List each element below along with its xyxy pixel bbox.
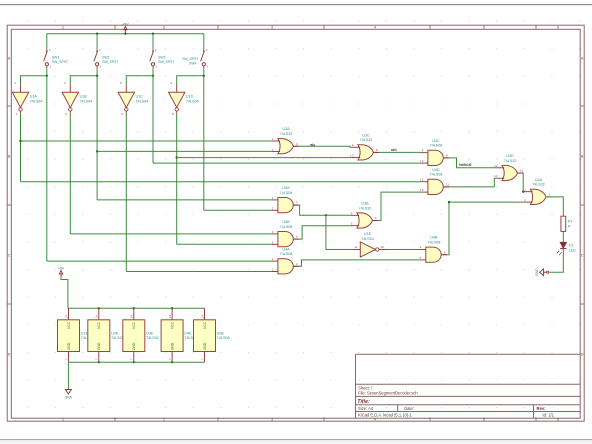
svg-text:74LS08: 74LS08 [430, 173, 443, 177]
svg-text:14: 14 [64, 315, 68, 319]
bottom window divider line [0, 439, 592, 440]
svg-text:SW_SPST: SW_SPST [102, 60, 118, 64]
svg-text:14: 14 [168, 315, 172, 319]
wire R1 to LED D1 [562, 231, 564, 242]
svg-text:3: 3 [271, 26, 273, 30]
wire SW4 down to bracket junction [203, 68, 205, 76]
ground symbol (right) [547, 271, 549, 273]
svg-text:U1B: U1B [80, 94, 88, 98]
AND gate U4A 74LS08 [278, 259, 293, 274]
svg-text:74LS08: 74LS08 [280, 191, 293, 195]
svg-text:SW3: SW3 [158, 55, 165, 59]
wire SW1(A) vertical [46, 76, 48, 261]
svg-text:D: D [8, 352, 11, 356]
wire GND rail to ground [67, 362, 69, 389]
wire nD to U5B pin5 [177, 243, 272, 245]
junction GND rail U3E [133, 361, 135, 363]
svg-text:Size: A4: Size: A4 [358, 406, 374, 411]
AND gate U5A 74LS08 [278, 198, 293, 213]
svg-text:U2E: U2E [111, 331, 119, 335]
wire nB to U5B pin4 [70, 233, 271, 235]
power unit U1E 74LS04 [68, 308, 70, 320]
svg-text:Date:: Date: [404, 406, 414, 411]
svg-text:U3C: U3C [362, 133, 370, 137]
wire U3D out to U2A pin1 [518, 173, 524, 192]
svg-text:VCC: VCC [203, 321, 207, 329]
svg-text:SW_SPST: SW_SPST [158, 60, 174, 64]
wire rail to SW4 [203, 34, 205, 49]
svg-text:74LS32: 74LS32 [146, 336, 159, 340]
wire U1A output vertical [20, 114, 22, 182]
svg-text:File: SevenSegmentDecoder.sch: File: SevenSegmentDecoder.sch [358, 391, 418, 396]
svg-text:13: 13 [494, 174, 498, 178]
svg-text:Rev:: Rev: [537, 406, 546, 411]
wire U4A out to U4B pin5 [293, 260, 419, 266]
wire bracket SW1 to U1A input [21, 76, 47, 85]
svg-text:74LS32: 74LS32 [111, 336, 124, 340]
svg-text:D1: D1 [569, 243, 574, 247]
wire SW1 down to bracket junction [46, 68, 48, 76]
wire nA to U4D pin12 [21, 181, 422, 183]
svg-text:10: 10 [350, 154, 354, 158]
wire U1E out to U4B pin4 [386, 249, 419, 251]
switch SW2 (SW_SPST) [94, 49, 99, 68]
AND gate U4B 74LS08 [426, 247, 441, 262]
svg-text:C: C [581, 253, 584, 257]
wire U4C out to U3D pin12 [443, 158, 495, 168]
svg-text:U1C: U1C [136, 94, 144, 98]
AND gate U4D 74LS08 [428, 179, 443, 194]
svg-text:1: 1 [62, 26, 64, 30]
svg-text:GND: GND [65, 396, 73, 400]
svg-text:74LS08: 74LS08 [280, 225, 293, 229]
junction U2A.2 [448, 201, 450, 203]
svg-text:ab: ab [310, 142, 315, 147]
svg-text:U4C: U4C [432, 139, 440, 143]
svg-text:VCC: VCC [97, 321, 101, 329]
svg-text:10: 10 [381, 245, 385, 249]
svg-text:12: 12 [494, 164, 498, 168]
svg-text:GND: GND [203, 342, 207, 350]
svg-text:14: 14 [130, 315, 134, 319]
svg-text:U2A: U2A [535, 178, 543, 182]
inverter U1C 74LS04 [118, 92, 134, 107]
wire VCC rail [68, 307, 205, 309]
wire bracket SW4 to U1D input [177, 76, 204, 85]
svg-text:SW_SPST: SW_SPST [182, 57, 198, 61]
junction +5V stem [124, 33, 126, 35]
junction SW1/bracket [46, 75, 48, 77]
LED D1 [560, 242, 566, 248]
svg-text:SW2: SW2 [102, 55, 109, 59]
+5V power symbol PWR01 [124, 26, 127, 33]
svg-text:2: 2 [163, 418, 165, 422]
wire U4D out to U3D pin13 [443, 178, 495, 187]
inverter U1D 74LS04 [169, 92, 185, 107]
svg-text:U4B: U4B [430, 236, 438, 240]
OR gate U3D 74LS32 [502, 165, 518, 180]
wire LED to GND [549, 249, 564, 272]
ground symbol (bottom left) [65, 390, 71, 394]
wire +5V to VCC rail [61, 277, 68, 308]
svg-text:U3A: U3A [282, 127, 290, 131]
wire A to U4A pin1 [47, 260, 272, 262]
svg-text:5: 5 [483, 418, 485, 422]
svg-text:74LS04: 74LS04 [80, 99, 93, 103]
svg-text:10: 10 [420, 159, 424, 163]
junction VCC rail U4E [171, 307, 173, 309]
wire C to U4C pin10 [153, 162, 421, 164]
svg-text:74LS08: 74LS08 [428, 241, 441, 245]
svg-text:74LS04: 74LS04 [30, 99, 43, 103]
svg-text:74LS04: 74LS04 [186, 99, 199, 103]
wire bracket SW3 to U1C input [126, 76, 153, 85]
svg-text:U4E: U4E [184, 331, 192, 335]
wire U3A out to U3C pin9 [294, 146, 352, 147]
inverter U1B 74LS04 [62, 92, 78, 107]
svg-text:11: 11 [446, 183, 449, 187]
svg-text:U4D: U4D [432, 168, 440, 172]
switch SW1 (SW_SPST) [44, 49, 49, 68]
wire rail to SW3 [152, 34, 154, 49]
svg-text:KiCad E.D.A. kicad (5.1.10)-1: KiCad E.D.A. kicad (5.1.10)-1 [358, 413, 412, 418]
wire U5B out to U3B pin5 [293, 226, 350, 239]
junction SW4/bracket [203, 75, 205, 77]
svg-text:5: 5 [483, 26, 485, 30]
wire bracket SW2 to U1B input [70, 76, 97, 85]
svg-text:U5B: U5B [282, 220, 290, 224]
wire GND rail [68, 361, 204, 363]
svg-text:ab1: ab1 [391, 148, 397, 152]
svg-text:6: 6 [557, 418, 559, 422]
AND gate U4C 74LS08 [428, 150, 443, 165]
title block [356, 354, 581, 418]
wire U4B out up to U2A pin2 [441, 202, 524, 255]
svg-text:11: 11 [354, 245, 357, 249]
svg-text:U3E: U3E [146, 331, 154, 335]
inverter U1A 74LS04 [12, 92, 28, 107]
svg-text:74LS04: 74LS04 [361, 237, 374, 241]
svg-text:VCC: VCC [67, 321, 71, 329]
frame column dividers and zone numbers [62, 25, 559, 421]
svg-text:GND: GND [535, 268, 539, 276]
svg-text:U5E: U5E [217, 331, 225, 335]
wire U1B output vertical [69, 114, 71, 234]
wire rail to SW1 [46, 34, 48, 49]
junction B [96, 150, 98, 152]
switch SW4 (SW_SPST) [201, 49, 206, 68]
svg-text:74LS32: 74LS32 [280, 132, 293, 136]
svg-text:R1: R1 [568, 220, 573, 224]
svg-text:SW4: SW4 [189, 62, 196, 66]
svg-text:14: 14 [95, 315, 99, 319]
resistor R1 [561, 216, 566, 231]
junction SW3/bracket [152, 75, 154, 77]
junction GND rail U2E [98, 361, 100, 363]
inverter U1E 74LS04 [360, 242, 375, 257]
junction U5A out [325, 214, 327, 216]
svg-text:Sheet: /: Sheet: / [358, 385, 373, 390]
svg-text:VCC: VCC [132, 321, 136, 329]
wire D to U5A pin2 [204, 209, 272, 211]
wire SW4(D) vertical [203, 76, 205, 211]
junction U2A.1 [522, 191, 524, 193]
wire nA to U3A pin1 [21, 140, 272, 142]
svg-text:GND: GND [132, 342, 136, 350]
junction SW2/bracket [96, 75, 98, 77]
svg-text:6: 6 [557, 26, 559, 30]
wire nD to U3C pin10 [177, 157, 352, 159]
wire B to U5A pin1 [97, 199, 271, 201]
power unit U3E 74LS32 [133, 308, 135, 320]
junction VCC rail U2E [98, 307, 100, 309]
svg-text:U3B: U3B [361, 202, 369, 206]
svg-text:R: R [568, 225, 571, 229]
svg-text:74LS08: 74LS08 [280, 252, 293, 256]
power unit U4E 74LS08 [171, 308, 173, 320]
wire U2A out to R1 [546, 197, 563, 216]
OR gate U3B 74LS32 [357, 213, 373, 228]
svg-text:VCC: VCC [170, 321, 174, 329]
top window divider line [0, 4, 592, 5]
svg-text:4: 4 [374, 418, 376, 422]
svg-text:GND: GND [67, 342, 71, 350]
+5V power symbol (power units) [59, 271, 62, 278]
svg-text:74LS32: 74LS32 [532, 183, 545, 187]
svg-text:U3D: U3D [506, 154, 514, 158]
junction nD [176, 156, 178, 158]
wire U3C out to U4C pin9 [374, 151, 422, 153]
svg-text:GND: GND [170, 342, 174, 350]
svg-text:3: 3 [271, 418, 273, 422]
wire SW3(C) vertical [152, 76, 154, 163]
wire SW3 down to bracket junction [152, 68, 154, 76]
svg-text:D: D [581, 352, 584, 356]
svg-text:Id: 1/1: Id: 1/1 [543, 413, 555, 418]
wire rail to SW2 [96, 34, 98, 49]
svg-text:74LS08: 74LS08 [430, 144, 443, 148]
svg-text:U1A: U1A [30, 94, 38, 98]
OR gate U2A 74LS32 [530, 189, 546, 204]
OR gate U3C 74LS32 [358, 145, 374, 160]
svg-text:74LS32: 74LS32 [359, 206, 372, 210]
svg-text:U4A: U4A [282, 247, 290, 251]
junction rail/SW3 [152, 33, 154, 35]
svg-text:13: 13 [420, 188, 424, 192]
wire SW2 down to bracket junction [96, 68, 98, 76]
wire +5V rail [47, 33, 204, 35]
svg-text:74LS32: 74LS32 [504, 159, 517, 163]
OR gate U3A 74LS32 [278, 139, 294, 154]
svg-text:U1E: U1E [364, 232, 372, 236]
svg-text:4: 4 [374, 26, 376, 30]
svg-text:12: 12 [420, 178, 424, 182]
power unit U5E 74LS08 [204, 308, 206, 320]
wire B to U3A pin2 [97, 150, 271, 152]
svg-text:SW1: SW1 [52, 55, 59, 59]
svg-text:+5V: +5V [122, 22, 129, 26]
svg-text:U1D: U1D [186, 94, 194, 98]
svg-text:+5V: +5V [58, 266, 65, 270]
frame row dividers and zone letters [7, 56, 584, 356]
switch SW3 (SW_SPST) [150, 49, 155, 68]
svg-text:LED: LED [569, 248, 576, 252]
svg-text:U5A: U5A [282, 186, 290, 190]
svg-text:0w9b1I0: 0w9b1I0 [459, 163, 472, 167]
svg-text:SW_SPST: SW_SPST [52, 60, 68, 64]
junction GND rail U4E [171, 361, 173, 363]
wire SW2(B) vertical [96, 76, 98, 200]
svg-text:74LS32: 74LS32 [360, 138, 373, 142]
svg-text:74LS04: 74LS04 [136, 99, 149, 103]
svg-text:11: 11 [520, 169, 523, 173]
AND gate U5B 74LS08 [278, 232, 293, 247]
svg-text:GND: GND [97, 342, 101, 350]
wire branch to U1E input [326, 215, 353, 249]
wire U1C output vertical [125, 114, 127, 272]
svg-text:74LS08: 74LS08 [217, 336, 230, 340]
junction rail/SW2 [96, 33, 98, 35]
wire nC to U4A pin2 [126, 271, 271, 273]
svg-text:C: C [8, 253, 11, 257]
svg-text:Title:: Title: [357, 399, 370, 405]
svg-text:2: 2 [163, 26, 165, 30]
svg-text:14: 14 [200, 315, 204, 319]
junction nA [19, 140, 21, 142]
wire U1D output vertical [176, 114, 178, 245]
wire U3B out to U4D pin13 [373, 192, 422, 220]
junction VCC rail U3E [133, 307, 135, 309]
power unit U2E 74LS32 [98, 308, 100, 320]
wire U5A out to U3B pin4 [293, 205, 350, 215]
svg-text:1: 1 [62, 418, 64, 422]
